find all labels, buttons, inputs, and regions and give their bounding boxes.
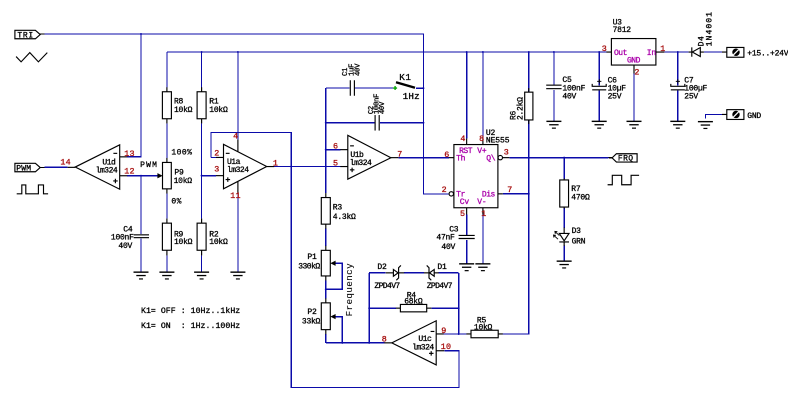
polarized capacitor C6 bbox=[592, 77, 626, 102]
node rail R1 junction bbox=[201, 51, 203, 53]
node rail pin4 junction bbox=[237, 51, 239, 53]
wire integrator node vertical bbox=[325, 88, 327, 193]
svg-text:2: 2 bbox=[214, 149, 219, 159]
svg-text:lm324: lm324 bbox=[227, 166, 249, 175]
capacitor C5 bbox=[546, 76, 585, 102]
wire R1 to R2 vertical bbox=[201, 123, 203, 218]
wire R6 bottom to R5 right bbox=[503, 120, 529, 334]
wire zener right vertical bbox=[458, 273, 460, 334]
square wave symbol FRQ bbox=[608, 175, 640, 184]
wire R6 top lead bbox=[528, 52, 530, 93]
node pin6 junction bbox=[325, 149, 327, 151]
svg-text:9: 9 bbox=[441, 326, 446, 336]
svg-text:40V: 40V bbox=[354, 63, 362, 76]
ground R9 bbox=[159, 272, 174, 279]
svg-text:40V: 40V bbox=[379, 101, 387, 114]
ground R2 bbox=[194, 272, 209, 279]
svg-text:10kΩ: 10kΩ bbox=[174, 238, 193, 247]
svg-text:3: 3 bbox=[214, 165, 219, 175]
node C2 right junction bbox=[422, 122, 424, 124]
potentiometer P2 bbox=[302, 298, 336, 334]
op-amp U1b bbox=[333, 135, 403, 179]
resistor R9 bbox=[162, 219, 192, 256]
capacitor C3 bbox=[436, 226, 474, 253]
node P1 bottom junction bbox=[325, 288, 327, 290]
wire P1 bottom bbox=[325, 280, 327, 298]
polarized capacitor C7 bbox=[671, 77, 708, 102]
node rail V+ junction bbox=[482, 51, 484, 53]
wire U2 V+ pin8 lead bbox=[482, 52, 484, 139]
svg-text:2: 2 bbox=[442, 185, 447, 195]
tag TRI bbox=[15, 30, 40, 40]
svg-text:1N4001: 1N4001 bbox=[705, 11, 714, 46]
wire U1b out to U2 Th bbox=[398, 157, 448, 159]
wire V+ rail bbox=[167, 51, 607, 53]
wire C4 to ground bbox=[140, 238, 142, 271]
wire U3 GND pin2 to ground bbox=[633, 74, 635, 122]
wire D2 to D1 bbox=[404, 272, 424, 274]
wire D1 right bbox=[439, 272, 459, 274]
svg-text:10kΩ: 10kΩ bbox=[209, 238, 228, 247]
svg-text:ZPD4V7: ZPD4V7 bbox=[374, 282, 400, 291]
zener D2 bbox=[374, 263, 404, 291]
wire PWM tag stub bbox=[40, 166, 45, 168]
node Q R7 junction bbox=[563, 157, 565, 159]
wire U1a pin11 to ground bbox=[237, 194, 239, 272]
svg-text:PWM: PWM bbox=[140, 161, 158, 170]
svg-text:10kΩ: 10kΩ bbox=[474, 323, 493, 332]
svg-text:lm324: lm324 bbox=[96, 166, 118, 175]
LED D3 bbox=[554, 227, 586, 247]
ground C3 bbox=[459, 264, 474, 271]
wire U3 In to D4 bbox=[664, 51, 688, 53]
wire zener left vertical bbox=[368, 273, 370, 343]
svg-text:3: 3 bbox=[504, 147, 509, 157]
svg-text:K1= OFF : 10Hz..1kHz: K1= OFF : 10Hz..1kHz bbox=[141, 306, 240, 316]
wire P9 to R9 bbox=[166, 193, 168, 218]
svg-text:U1c: U1c bbox=[418, 335, 432, 344]
resistor R1 bbox=[197, 87, 228, 123]
triangle wave symbol bbox=[16, 53, 47, 62]
svg-text:+15..+24V: +15..+24V bbox=[747, 50, 788, 59]
wire U2 Q output to FRQ tag bbox=[509, 157, 608, 159]
capacitor C4 bbox=[111, 226, 149, 251]
node rail R6 junction bbox=[528, 51, 530, 53]
node TRI/pin13 junction bbox=[140, 33, 142, 35]
wire R4 right bbox=[431, 307, 458, 309]
wire U1c pin9 to R5 bbox=[444, 333, 467, 335]
node divider pin3 junction bbox=[201, 175, 203, 177]
ground C7 bbox=[670, 121, 685, 128]
wire U1c output bbox=[326, 342, 385, 344]
svg-text:P1: P1 bbox=[307, 253, 317, 262]
svg-text:6: 6 bbox=[333, 142, 338, 152]
ground U3 pin2 bbox=[627, 121, 642, 128]
svg-text:6: 6 bbox=[444, 150, 449, 160]
svg-text:10kΩ: 10kΩ bbox=[174, 177, 193, 186]
node pin12 C4 junction bbox=[140, 175, 142, 177]
wire P2 bottom bbox=[325, 334, 327, 343]
wire C5 top lead bbox=[553, 52, 555, 85]
svg-text:12: 12 bbox=[124, 166, 134, 176]
svg-text:1: 1 bbox=[660, 44, 665, 54]
svg-text:GRN: GRN bbox=[572, 237, 586, 246]
ground C6 bbox=[592, 121, 607, 128]
wire D4 to +24V terminal bbox=[704, 51, 722, 53]
tag FRQ bbox=[612, 154, 637, 164]
node Dis R6 junction bbox=[528, 193, 530, 195]
IC U2 NE555 box bbox=[442, 129, 513, 219]
terminal +15..+24V bbox=[722, 47, 788, 58]
svg-text:7: 7 bbox=[397, 149, 402, 159]
wire C7 top lead bbox=[677, 52, 679, 86]
svg-text:330kΩ: 330kΩ bbox=[298, 263, 320, 272]
svg-text:Th: Th bbox=[456, 155, 466, 164]
wire TRI to U1d pin13 vertical bbox=[127, 34, 141, 157]
wire C1 left bbox=[326, 87, 350, 89]
svg-text:5: 5 bbox=[333, 158, 338, 168]
resistor R5 bbox=[466, 317, 502, 338]
op-amp U1c bbox=[382, 321, 452, 365]
wire U1a pin2 stub bbox=[211, 156, 216, 158]
node rail C5 junction bbox=[553, 51, 555, 53]
svg-text:Out: Out bbox=[614, 49, 627, 58]
resistor R3 bbox=[321, 193, 356, 229]
capacitor C2 bbox=[368, 94, 387, 131]
svg-text:P2: P2 bbox=[307, 308, 317, 317]
op-amp U1d bbox=[60, 145, 134, 189]
svg-text:25V: 25V bbox=[608, 92, 622, 101]
wire Q to R7 bbox=[563, 158, 565, 179]
wire R3 to P1 bbox=[325, 229, 327, 246]
svg-text:68kΩ: 68kΩ bbox=[404, 298, 423, 307]
svg-text:D2: D2 bbox=[377, 263, 387, 272]
wire P2 wiper loop bbox=[335, 317, 343, 343]
svg-text:PWM: PWM bbox=[16, 164, 31, 173]
svg-text:+: + bbox=[676, 78, 681, 87]
svg-text:Q\: Q\ bbox=[486, 155, 496, 164]
resistor R2 bbox=[197, 219, 228, 256]
node U1a out feedback junction bbox=[290, 166, 292, 168]
terminal GND bbox=[722, 110, 761, 121]
wire C5 to ground bbox=[553, 90, 555, 121]
svg-text:47nF: 47nF bbox=[436, 234, 455, 243]
svg-text:1Hz: 1Hz bbox=[403, 91, 420, 102]
wire U1d pin12 to P9 wiper bbox=[127, 175, 158, 177]
potentiometer P9 bbox=[157, 158, 192, 194]
svg-text:40V: 40V bbox=[118, 242, 132, 251]
ground U1a pin11 bbox=[230, 272, 245, 279]
wire U2 RST pin4 lead bbox=[466, 52, 468, 139]
wire U1a output to U1b pin5 bbox=[274, 166, 340, 168]
tag PWM bbox=[15, 163, 40, 173]
svg-text:R3: R3 bbox=[333, 204, 343, 213]
wire GND terminal to ground bbox=[705, 114, 722, 118]
resistor R6 (vertical labels) bbox=[509, 88, 533, 124]
svg-text:8: 8 bbox=[479, 134, 484, 144]
svg-text:NE555: NE555 bbox=[486, 137, 510, 146]
svg-text:4: 4 bbox=[233, 132, 238, 142]
wire U1b pin6 stub bbox=[326, 149, 341, 151]
wire C2 right bbox=[380, 122, 424, 124]
svg-text:D3: D3 bbox=[572, 227, 582, 236]
node P2 wiper out junction bbox=[341, 342, 343, 344]
svg-text:FRQ: FRQ bbox=[618, 155, 634, 164]
wire R8 top lead bbox=[166, 52, 168, 88]
svg-text:11: 11 bbox=[230, 191, 240, 201]
wire D3 to ground bbox=[563, 246, 565, 261]
resistor R4 bbox=[396, 292, 432, 312]
svg-text:ZPD4V7: ZPD4V7 bbox=[427, 282, 453, 291]
ground C4 bbox=[134, 272, 149, 279]
wire U1a feedback loop and U1c pin10 return bbox=[211, 132, 459, 387]
wire K1 to vertical bbox=[416, 87, 423, 89]
svg-text:470Ω: 470Ω bbox=[571, 193, 590, 202]
svg-text:In: In bbox=[647, 49, 657, 58]
capacitor C1 bbox=[342, 63, 363, 96]
svg-text:33kΩ: 33kΩ bbox=[302, 317, 321, 326]
wire TRI tag stub bbox=[40, 33, 45, 35]
svg-text:5: 5 bbox=[460, 209, 465, 219]
wire R8 to P9 bbox=[166, 123, 168, 158]
wire R1 top lead bbox=[201, 52, 203, 88]
wire R9 to ground bbox=[166, 255, 168, 272]
wire C6 top lead bbox=[598, 52, 600, 86]
node rail RST junction bbox=[466, 51, 468, 53]
svg-text:Frequency: Frequency bbox=[344, 263, 355, 316]
node C2 left junction bbox=[325, 122, 327, 124]
svg-text:TRI: TRI bbox=[17, 31, 34, 40]
svg-text:GND: GND bbox=[627, 56, 641, 65]
node In C7 junction bbox=[677, 51, 679, 53]
svg-text:K1: K1 bbox=[399, 72, 411, 83]
node pin9 junction bbox=[458, 333, 460, 335]
wire U1a pin4 lead bbox=[237, 52, 239, 140]
wire U2 V- to ground bbox=[482, 215, 484, 264]
svg-text:7812: 7812 bbox=[613, 26, 632, 35]
wire C2 left bbox=[326, 122, 375, 124]
svg-text:4: 4 bbox=[460, 134, 465, 144]
wire R4 left bbox=[369, 307, 396, 309]
wire divider to U1a pin3 bbox=[202, 175, 216, 177]
wire U2 Cv to C3 bbox=[466, 215, 468, 236]
svg-text:V-: V- bbox=[477, 198, 486, 207]
svg-text:GND: GND bbox=[747, 112, 761, 121]
svg-text:lm324: lm324 bbox=[350, 159, 372, 168]
svg-text:2: 2 bbox=[634, 67, 639, 77]
node K1 terminal junction bbox=[422, 87, 424, 89]
node R4 left junction bbox=[368, 307, 370, 309]
svg-text:40V: 40V bbox=[562, 93, 576, 102]
diode D4 bbox=[689, 11, 715, 57]
op-amp U1a bbox=[214, 132, 278, 201]
switch K1 bbox=[393, 72, 420, 102]
svg-text:7: 7 bbox=[507, 185, 512, 195]
svg-text:+: + bbox=[597, 78, 602, 87]
ground C5 bbox=[546, 121, 561, 128]
zener D1 bbox=[424, 263, 453, 291]
ground U2 V- bbox=[475, 264, 490, 271]
node zener out junction bbox=[368, 342, 370, 344]
svg-text:13: 13 bbox=[124, 149, 134, 159]
node rail C6 junction bbox=[598, 51, 600, 53]
wire zener D2 left bbox=[369, 272, 386, 274]
resistor R7 bbox=[560, 179, 590, 209]
ground D3 bbox=[557, 261, 572, 268]
svg-text:25V: 25V bbox=[684, 92, 698, 101]
svg-text:3: 3 bbox=[602, 44, 607, 54]
potentiometer P1 bbox=[298, 246, 335, 281]
svg-text:1: 1 bbox=[273, 158, 278, 168]
svg-text:D1: D1 bbox=[437, 263, 447, 272]
wire TRI net top horizontal bbox=[44, 34, 448, 194]
svg-text:100%: 100% bbox=[171, 149, 192, 158]
node R4 right junction bbox=[458, 307, 460, 309]
wire pin12 node to C4 bbox=[140, 176, 142, 234]
wire U2 Dis to R6 net bbox=[503, 193, 529, 195]
wire C1 right to K1 bbox=[355, 87, 393, 89]
svg-text:8: 8 bbox=[382, 335, 387, 345]
wire C6 to ground bbox=[598, 91, 600, 122]
svg-text:14: 14 bbox=[60, 158, 70, 168]
svg-text:10kΩ: 10kΩ bbox=[209, 106, 228, 115]
IC U3 7812 box bbox=[602, 19, 666, 78]
svg-text:4.3kΩ: 4.3kΩ bbox=[333, 213, 356, 222]
wire C7 to ground bbox=[677, 91, 679, 122]
svg-text:lm324: lm324 bbox=[412, 344, 434, 353]
svg-text:1: 1 bbox=[481, 209, 486, 219]
wire PWM tag to U1d input bbox=[44, 166, 67, 168]
svg-text:2.2kΩ: 2.2kΩ bbox=[516, 97, 525, 120]
square wave symbol PWM bbox=[17, 185, 48, 194]
svg-text:0%: 0% bbox=[171, 197, 182, 206]
node integrator out junction bbox=[325, 166, 327, 168]
svg-text:10: 10 bbox=[441, 342, 451, 352]
svg-text:K1= ON : 1Hz..100Hz: K1= ON : 1Hz..100Hz bbox=[141, 322, 240, 331]
wire C3 to ground bbox=[466, 240, 468, 264]
svg-text:Cv: Cv bbox=[460, 198, 470, 207]
wire P1 wiper loop bbox=[326, 263, 343, 289]
wire R2 to ground bbox=[201, 255, 203, 272]
svg-text:10kΩ: 10kΩ bbox=[174, 106, 193, 115]
svg-text:40V: 40V bbox=[441, 243, 455, 252]
wire R7 to D3 bbox=[563, 208, 565, 228]
wire FRQ tag stub bbox=[608, 157, 612, 159]
ground GND terminal bbox=[698, 122, 713, 129]
resistor R8 bbox=[162, 87, 192, 123]
